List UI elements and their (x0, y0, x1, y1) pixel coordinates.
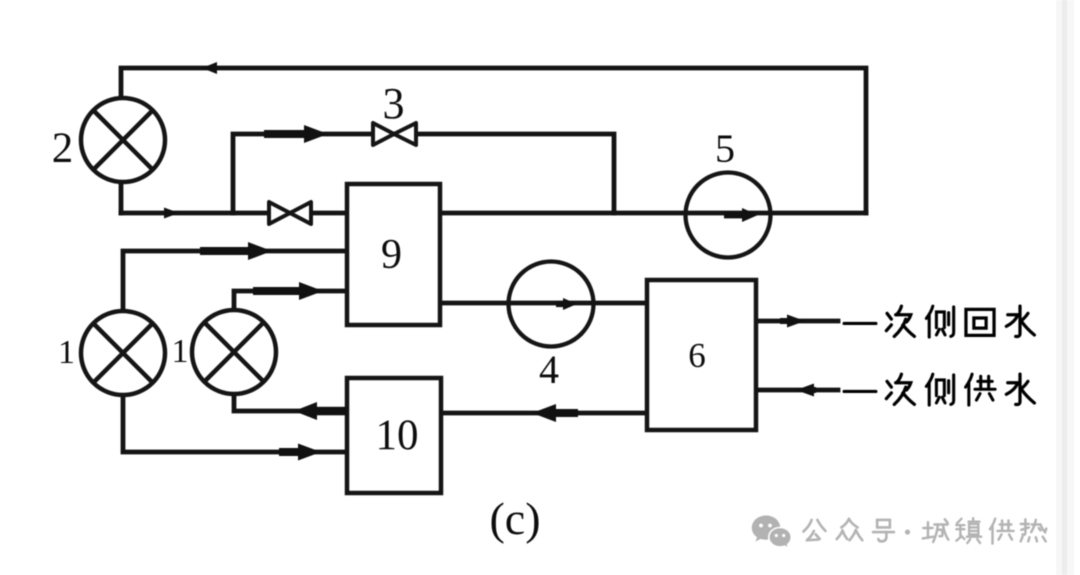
wire bypass y134 (233, 134, 614, 213)
wire primary return (756, 319, 838, 324)
wire top loop (121, 68, 866, 213)
arrow left big on y411 (312, 407, 347, 416)
svg-text:4: 4 (539, 347, 559, 392)
svg-text:2: 2 (52, 125, 74, 172)
watermark text: 公众号 · 城镇供热 (803, 518, 1046, 544)
watermark wechat icon (752, 516, 792, 549)
svg-text:10: 10 (376, 412, 419, 459)
text: 一次侧供水 (primary side supply water) (844, 374, 1034, 405)
box 9 (347, 184, 440, 325)
wire y213 left segment (121, 211, 347, 216)
svg-text:1: 1 (172, 333, 189, 370)
arrow right inside pump5 (724, 212, 748, 219)
valve 2 (circle with X) top left (81, 98, 165, 182)
wire y213 right segment (440, 211, 866, 216)
svg-text:1: 1 (58, 334, 75, 371)
valve bowtie on y213 (269, 202, 311, 224)
arrow right inside pump4 (556, 301, 568, 307)
arrow right on return line (780, 318, 790, 324)
pump 4 circle (509, 262, 594, 347)
wire box9 to box6 through pump4 (440, 301, 647, 306)
wire circle1b bottom (234, 394, 347, 411)
arrow right big on y452 (279, 448, 303, 456)
wire y291 into box 9 (234, 291, 347, 310)
box 6 (647, 280, 756, 430)
arrow right big on y291 (253, 287, 303, 295)
wire circle2 bottom to y213 (119, 182, 124, 213)
number labels (52, 79, 735, 544)
arrow left on supply line (806, 387, 816, 393)
wire y251 into box 9 (123, 251, 347, 311)
svg-text:5: 5 (715, 126, 735, 171)
arrow right big on y134 (264, 130, 308, 138)
svg-text:6: 6 (688, 336, 706, 375)
valve 3 bowtie (373, 123, 416, 145)
svg-text:(c): (c) (489, 493, 540, 544)
valve 1b (circle with X) (192, 310, 276, 394)
valve 1a (circle with X) (81, 311, 165, 395)
faint scan band right edge (1056, 0, 1074, 575)
box 10 (347, 378, 441, 493)
arrow right small on y213 (164, 208, 179, 219)
pump 5 circle (686, 173, 771, 258)
arrows (164, 62, 816, 461)
arrow right big on y251 (200, 247, 252, 255)
wire box10 to box6 (441, 411, 647, 416)
arrow left on top line (202, 62, 217, 74)
svg-text:9: 9 (381, 232, 402, 278)
svg-text:3: 3 (383, 79, 405, 128)
arrow left big on y413 (551, 409, 578, 417)
wire primary supply (756, 388, 838, 393)
text: 一次侧回水 (primary side return water) (844, 306, 1034, 337)
wire circle1a bottom (123, 395, 347, 452)
